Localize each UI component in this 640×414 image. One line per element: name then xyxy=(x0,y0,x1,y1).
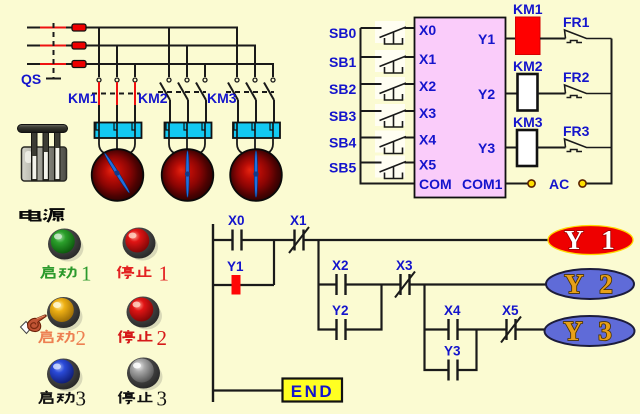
contactor KM2 main contacts (open) xyxy=(158,83,206,123)
QS linkage dashed line xyxy=(53,23,55,78)
wire drop rung2 to rung3 xyxy=(423,285,425,330)
wire KM1 to FR1 xyxy=(540,38,566,40)
contactor KM1 main contacts (closed) xyxy=(92,78,140,122)
svg-text:SB3: SB3 xyxy=(329,108,356,124)
svg-text:KM1: KM1 xyxy=(68,90,98,106)
svg-text:2: 2 xyxy=(157,326,168,350)
wire drop L1 to KM2 xyxy=(168,28,170,78)
svg-text:END: END xyxy=(291,382,334,401)
rung 2 wire xyxy=(319,283,549,285)
svg-text:X5: X5 xyxy=(419,157,436,173)
pushbutton start3 (blue) xyxy=(47,359,83,392)
pushbutton SB2 xyxy=(329,77,415,100)
svg-text:X2: X2 xyxy=(332,258,349,273)
label 电源 (power) xyxy=(21,209,65,222)
contact X3 (NC) xyxy=(395,272,415,298)
svg-text:X4: X4 xyxy=(419,132,436,148)
contactor KM3 main contacts (open) xyxy=(226,83,274,123)
wire L2 bus xyxy=(86,46,255,78)
motor M2 xyxy=(162,138,214,201)
svg-text:X1: X1 xyxy=(419,51,436,67)
svg-text:SB5: SB5 xyxy=(329,160,356,176)
svg-text:COM1: COM1 xyxy=(462,176,503,192)
fuse FU L1 xyxy=(72,24,86,31)
svg-text:KM3: KM3 xyxy=(207,90,237,106)
pushbutton stop1 (red) xyxy=(123,228,159,261)
fuse FU L3 xyxy=(72,61,86,68)
svg-text:X3: X3 xyxy=(419,105,436,121)
END instruction box xyxy=(283,379,343,402)
svg-text:SB1: SB1 xyxy=(329,54,356,70)
wire L3 phase line xyxy=(27,63,72,65)
svg-text:Y1: Y1 xyxy=(478,31,495,47)
svg-text:X1: X1 xyxy=(290,213,307,228)
END rung wire xyxy=(213,389,283,391)
AC terminal 1 xyxy=(528,180,535,187)
svg-text:COM: COM xyxy=(419,176,452,192)
svg-text:KM2: KM2 xyxy=(513,58,543,74)
wire Y3 output xyxy=(506,147,518,149)
wire L2 phase line xyxy=(27,45,72,47)
svg-text:Y2: Y2 xyxy=(332,303,349,318)
svg-text:FR3: FR3 xyxy=(563,123,590,139)
wire drop L3 to KM1 xyxy=(134,64,136,77)
wire drop L2 to KM2 xyxy=(186,46,188,78)
contact Y3 (NO) xyxy=(449,360,458,381)
svg-text:3: 3 xyxy=(157,387,168,411)
pushbutton SB3 xyxy=(329,104,415,127)
label 停止3 (black) xyxy=(119,391,153,404)
svg-text:X3: X3 xyxy=(396,258,413,273)
wire COM1 to AC terminal xyxy=(506,183,529,185)
contactor coil KM2 xyxy=(518,74,538,111)
svg-text:AC: AC xyxy=(549,176,569,192)
wire KM2 to FR2 xyxy=(538,93,566,95)
svg-text:KM3: KM3 xyxy=(513,114,543,130)
thermal relay contact FR2 xyxy=(565,85,612,98)
QS bottom tick xyxy=(46,78,61,80)
hand cursor pointing at start2 xyxy=(21,315,47,333)
wire drop L1 to KM1 xyxy=(98,28,100,78)
svg-text:X5: X5 xyxy=(502,303,519,318)
pushbutton start1 (green) xyxy=(48,229,84,262)
wire L1 phase line xyxy=(27,27,72,29)
thermal relay contact FR3 xyxy=(565,139,612,152)
wire KM3 to FR3 xyxy=(537,147,566,149)
motor M1 xyxy=(92,138,144,201)
contact Y2 (NO) xyxy=(337,319,346,340)
svg-text:Y1: Y1 xyxy=(227,259,244,274)
wire branch Y2 parallel xyxy=(319,285,382,330)
label 启动2 (salmon) xyxy=(39,330,74,343)
label 启动1 (green) xyxy=(41,266,76,279)
svg-text:KM1: KM1 xyxy=(513,1,543,17)
ladder left power rail xyxy=(212,224,214,402)
coil Y2 output ellipse xyxy=(546,269,634,299)
svg-text:Y3: Y3 xyxy=(478,140,495,156)
svg-text:Y3: Y3 xyxy=(444,344,461,359)
pushbutton SB4 xyxy=(329,131,415,154)
svg-text:X2: X2 xyxy=(419,78,436,94)
svg-text:SB2: SB2 xyxy=(329,81,356,97)
thermal relay contact FR1 xyxy=(565,30,612,43)
pushbutton stop2 (red) xyxy=(127,297,163,330)
svg-text:1: 1 xyxy=(81,262,92,286)
pushbutton start2 (yellow) xyxy=(47,297,83,331)
label 停止2 (red) xyxy=(119,330,153,343)
wire drop rung1 to rung2 xyxy=(317,240,319,285)
wire input bus vertical xyxy=(361,28,415,184)
wire AC return vertical xyxy=(586,39,612,184)
terminal block motor 2 xyxy=(165,123,212,139)
svg-text:X0: X0 xyxy=(419,22,436,38)
svg-text:X4: X4 xyxy=(444,303,461,318)
wire L1 bus xyxy=(86,28,237,78)
svg-text:FR2: FR2 xyxy=(563,69,590,85)
rung 1 wire xyxy=(213,239,548,241)
contact X4 (NO) xyxy=(449,319,458,340)
contact X2 (NO) xyxy=(337,274,346,295)
svg-text:SB4: SB4 xyxy=(329,135,356,151)
contactor coil KM3 xyxy=(517,130,537,166)
label 停止1 (red) xyxy=(118,266,152,279)
wire L3 bus xyxy=(86,64,273,77)
wire Y1 output xyxy=(506,38,516,40)
pushbutton SB1 xyxy=(329,50,415,73)
wire drop L2 to KM1 xyxy=(116,46,118,78)
wire Y2 output xyxy=(506,93,518,95)
motor M3 xyxy=(230,138,282,201)
contact X0 (NO) xyxy=(233,230,242,251)
pushbutton SB5 xyxy=(329,156,415,179)
wire branch Y3 parallel xyxy=(425,330,477,371)
PLC box U1 xyxy=(415,18,506,198)
svg-text:KM2: KM2 xyxy=(138,90,168,106)
svg-text:X0: X0 xyxy=(228,213,245,228)
svg-text:Y2: Y2 xyxy=(478,86,495,102)
AC terminal 2 xyxy=(579,180,586,187)
svg-text:FR1: FR1 xyxy=(563,14,590,30)
terminal block motor 3 xyxy=(233,123,280,139)
svg-text:QS: QS xyxy=(21,71,41,87)
contactor coil KM1 (energized) xyxy=(516,17,541,55)
wire drop L3 to KM2 xyxy=(204,64,206,77)
pushbutton SB0 xyxy=(329,21,415,44)
QS switch blade red segments xyxy=(40,28,66,65)
svg-text:SB0: SB0 xyxy=(329,25,356,41)
label 启动3 (black) xyxy=(39,391,74,404)
svg-text:2: 2 xyxy=(76,326,87,350)
QS knife switch graphic xyxy=(18,125,68,182)
contact Y1 (energized, red) xyxy=(232,275,241,295)
wire branch Y1 parallel xyxy=(213,240,274,285)
svg-text:1: 1 xyxy=(159,262,170,286)
contact X5 (NC) xyxy=(501,317,521,343)
coil Y3 output ellipse xyxy=(545,316,635,346)
coil Y1 output ellipse xyxy=(548,225,633,255)
terminal block motor 1 xyxy=(95,123,142,139)
rung 3 wire xyxy=(425,328,547,330)
pushbutton stop3 (gray) xyxy=(127,358,163,391)
svg-text:3: 3 xyxy=(76,387,87,411)
fuse FU L2 xyxy=(72,42,86,49)
contact X1 (NC) xyxy=(289,227,309,253)
